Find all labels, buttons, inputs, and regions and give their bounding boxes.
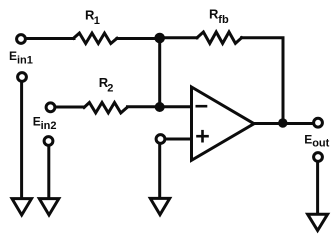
svg-text:E: E (304, 133, 312, 147)
wire node to Rfb (160, 36, 197, 39)
terminal Ein2 top (46, 103, 55, 112)
resistor R2 (84, 103, 127, 113)
wire Eout ground drop (316, 163, 319, 214)
terminal Ein2 ground (44, 137, 53, 146)
node output junction (278, 118, 287, 127)
wire noninverting terminal to op-amp (166, 138, 192, 141)
op-amp U1 (192, 87, 255, 160)
resistor R1 (74, 33, 118, 43)
wire op-amp output (254, 122, 313, 125)
op-amp minus sign (197, 105, 206, 108)
svg-text:out: out (312, 138, 329, 150)
wire Ein1 ground drop (20, 83, 23, 199)
terminal Ein1 top (17, 35, 26, 44)
svg-text:E: E (9, 49, 17, 63)
svg-text:in2: in2 (41, 120, 57, 132)
svg-text:2: 2 (107, 82, 113, 94)
op-amp plus sign (198, 135, 208, 138)
ground for Ein1 (12, 199, 32, 215)
node summing junction bottom (155, 102, 165, 112)
wire Ein2 ground drop (47, 147, 50, 199)
wire Rfb to right corner (242, 38, 284, 123)
resistor Rfb (197, 32, 242, 43)
wire Ein2 to R2 (56, 106, 84, 109)
ground for Eout (308, 214, 328, 230)
wire summing node down to inverting input (158, 38, 161, 107)
wire R2 to inverting input (128, 105, 192, 108)
wire noninverting ground drop (158, 144, 161, 198)
ground for noninverting input (150, 198, 169, 214)
svg-text:1: 1 (94, 15, 100, 27)
terminal Eout ground (314, 153, 323, 162)
svg-text:fb: fb (218, 14, 229, 26)
svg-text:in1: in1 (17, 54, 33, 66)
terminal Eout top (314, 118, 323, 127)
terminal noninverting input (156, 135, 165, 144)
wire R1 to summing node (117, 37, 160, 40)
node summing junction top (154, 33, 165, 44)
wire Ein1 to R1 (27, 37, 75, 40)
terminal Ein1 ground (18, 73, 27, 82)
ground for Ein2 (39, 199, 59, 215)
